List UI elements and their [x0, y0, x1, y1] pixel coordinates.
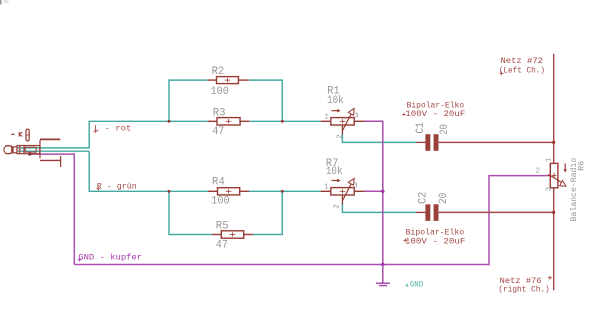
svg-text:(Left Ch.): (Left Ch.) — [499, 66, 545, 76]
svg-text:3: 3 — [546, 187, 554, 191]
wire — [89, 151, 208, 191]
wire net R-gruen from jack ring — [18, 150, 89, 152]
svg-text:10k: 10k — [326, 166, 343, 178]
svg-text:C1: C1 — [415, 122, 427, 134]
wire C1 right to rail — [439, 141, 554, 143]
wire R3 right to R1 pin1 — [249, 120, 320, 122]
svg-text:1: 1 — [546, 157, 554, 162]
wire GND net jack sleeve — [30, 154, 74, 264]
resistor R4 — [208, 188, 249, 195]
svg-text:2: 2 — [536, 168, 540, 176]
capacitor C1 — [416, 141, 425, 143]
svg-text:100V - 20uF: 100V - 20uF — [405, 109, 465, 119]
wire — [89, 121, 208, 148]
jack ring contact arm — [40, 159, 61, 161]
junction C1/rail — [552, 141, 555, 144]
svg-text:Netz #72: Netz #72 — [501, 56, 544, 66]
svg-text:GND: GND — [410, 279, 424, 289]
wire R1 wiper to C1 — [342, 133, 416, 142]
junction R7 pin3 — [381, 190, 385, 194]
svg-text:2: 2 — [334, 204, 342, 208]
wire R5 bypass right — [253, 191, 282, 234]
svg-text:100V - 20uF: 100V - 20uF — [405, 237, 466, 247]
svg-text:3: 3 — [353, 182, 357, 190]
wire C2 right to rail — [439, 211, 554, 213]
jack tiny name glyphs — [11, 129, 29, 141]
junction C2/rail — [552, 211, 555, 214]
R6 set arrow — [564, 164, 566, 171]
svg-text:2: 2 — [337, 134, 345, 138]
ground symbol — [376, 265, 390, 286]
R7 pin2 stub — [341, 195, 343, 205]
resistor R2 — [207, 77, 249, 84]
wire R5 bypass left — [169, 191, 212, 234]
junction L right node — [281, 120, 284, 123]
svg-text:R5: R5 — [216, 221, 229, 233]
R1 wiper arrow — [343, 112, 352, 130]
R6 wiper arrow — [549, 174, 562, 182]
svg-text:R3: R3 — [213, 107, 226, 119]
svg-text:GND - kupfer: GND - kupfer — [78, 252, 142, 262]
trimmer R6 — [550, 163, 558, 187]
jack body — [17, 146, 40, 154]
wire R2 bypass left — [169, 80, 207, 121]
resistor R3 — [208, 118, 249, 125]
R1 pin2 stub — [341, 125, 343, 135]
junction GND rail — [381, 263, 385, 267]
wire R1 pin3 to GND vertical — [365, 121, 383, 264]
node GND label — [406, 284, 409, 287]
svg-text:10k: 10k — [327, 95, 344, 107]
svg-text:100: 100 — [211, 195, 230, 207]
R6 wiper pin — [548, 175, 551, 177]
resistor R5 — [212, 231, 253, 238]
svg-text:R4: R4 — [212, 177, 225, 189]
trimmer R7 — [321, 188, 365, 195]
svg-text:R6: R6 — [578, 161, 587, 171]
jack tip contact arm — [40, 138, 60, 140]
jack connector X1 — [4, 139, 61, 167]
R7 set arrow — [332, 180, 339, 182]
svg-text:47: 47 — [216, 240, 228, 252]
jack tip ball — [4, 145, 13, 154]
R1 set arrow — [332, 110, 339, 112]
svg-text:47: 47 — [212, 126, 224, 138]
svg-text:(right Ch.): (right Ch.) — [498, 284, 549, 294]
wire R7 wiper to C2 — [342, 203, 416, 212]
wire R2 bypass right — [249, 80, 282, 121]
svg-text:1: 1 — [324, 183, 329, 191]
wire R6 pin3 to Netz #76 — [553, 188, 555, 290]
wire R4 right to R7 pin1 — [249, 190, 321, 192]
svg-text:3: 3 — [354, 113, 358, 121]
wire Netz #72 to R6 pin1 — [553, 54, 555, 164]
wire net L-rot from jack tip — [18, 147, 89, 149]
stray corner mark — [0, 0, 2, 5]
svg-text:1: 1 — [324, 114, 329, 122]
R7 wiper arrow — [343, 182, 352, 200]
wire GND bottom rail — [74, 176, 547, 265]
svg-text:L - rot: L - rot — [94, 124, 131, 134]
junction R right node — [281, 190, 284, 193]
jack face plate — [39, 140, 41, 158]
svg-text:100: 100 — [211, 86, 230, 98]
trimmer R1 — [321, 118, 365, 125]
svg-text:20: 20 — [438, 192, 450, 204]
svg-text:20: 20 — [439, 124, 451, 135]
jack neck — [13, 147, 17, 153]
svg-text:R - grün: R - grün — [97, 181, 137, 191]
svg-text:C2: C2 — [417, 192, 429, 204]
wire R7 pin3 stub — [365, 190, 383, 192]
svg-text:R2: R2 — [212, 66, 225, 78]
jack sleeve dot — [28, 153, 31, 156]
junction L left node — [168, 120, 171, 123]
junction R left node — [168, 190, 171, 193]
capacitor C2 — [416, 211, 426, 213]
